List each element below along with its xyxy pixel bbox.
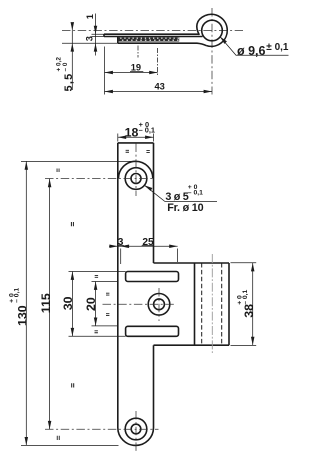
lower slot	[126, 326, 179, 336]
leader 3 ø5 / Fr. ø10	[144, 184, 217, 214]
bottom hole ø5	[131, 424, 141, 434]
dimension 115	[39, 179, 53, 429]
eye ring outer arc	[205, 14, 227, 46]
bottom hole centerlines	[45, 411, 159, 453]
top hole centerlines	[45, 144, 152, 197]
svg-text:– 0,1: – 0,1	[242, 289, 249, 304]
svg-text:43: 43	[155, 82, 165, 92]
plate outline (plan view)	[118, 143, 154, 446]
svg-text:– 0: – 0	[62, 62, 69, 71]
svg-text:– 0,1: – 0,1	[139, 125, 155, 134]
equality marks top	[126, 150, 150, 153]
extension line left end	[104, 47, 106, 95]
label ø 9,6 ±0,1 with leader	[220, 37, 289, 59]
serration band speckles	[120, 38, 179, 40]
svg-text:– 0,1: – 0,1	[188, 190, 203, 197]
top hole ø5	[131, 174, 141, 184]
dimension 5,5 +0,2/-0	[55, 22, 74, 91]
middle hole countersink	[148, 294, 170, 316]
dimension 130 +0/-0,1	[9, 161, 132, 445]
dimension 3 / 25	[109, 237, 178, 264]
svg-text:25: 25	[142, 237, 154, 248]
bottom hole countersink	[125, 418, 147, 440]
top dome arc	[118, 161, 152, 178]
svg-text:3: 3	[85, 36, 95, 41]
svg-text:3: 3	[118, 237, 124, 248]
dimension 30	[61, 272, 125, 337]
svg-text:18: 18	[125, 125, 139, 139]
dimension 3	[85, 36, 98, 52]
svg-text:ø 9,6: ø 9,6	[237, 44, 266, 58]
eye vertical centerline (side view)	[211, 8, 213, 95]
extension line at 19	[157, 48, 159, 76]
svg-text:5,5: 5,5	[63, 73, 75, 92]
leaf interface line	[104, 36, 203, 38]
middle hole centerlines	[103, 288, 175, 321]
top hole countersink	[125, 168, 147, 190]
hole centerline tick (side view)	[137, 46, 139, 58]
equality marks left column	[57, 169, 110, 441]
top leaf curl arc	[197, 16, 205, 35]
block hidden hole lines	[201, 263, 203, 345]
dimension 1	[85, 14, 97, 56]
dimension 19	[105, 62, 158, 74]
svg-text:± 0,1: ± 0,1	[266, 42, 289, 53]
block outline (eye section)	[154, 263, 230, 345]
serration band fill	[118, 37, 179, 41]
svg-text:38: 38	[242, 304, 256, 318]
dimension 18 +0/-0,1	[118, 120, 155, 142]
eye ring inner circle (hole ø9,6)	[202, 20, 223, 41]
svg-text:20: 20	[84, 297, 98, 311]
svg-text:30: 30	[61, 296, 75, 310]
block inner solid line	[194, 263, 196, 345]
svg-text:19: 19	[131, 62, 141, 72]
middle hole ø5	[154, 299, 165, 310]
side view horizontal centerline	[62, 30, 243, 32]
dimension 43	[105, 82, 213, 94]
svg-text:115: 115	[39, 293, 53, 313]
thin top leaf outline	[104, 34, 199, 36]
svg-text:Fr. ø 10: Fr. ø 10	[167, 202, 203, 214]
upper slot	[126, 272, 179, 282]
svg-text:– 0,1: – 0,1	[14, 288, 21, 303]
thick leaf outline	[118, 37, 207, 46]
dimension 38 +0/-0,1	[231, 263, 257, 346]
dimension 20	[84, 282, 118, 326]
extension lines left of side view	[62, 34, 118, 43]
svg-text:130: 130	[16, 305, 30, 326]
eye axis centerline (plan view)	[211, 254, 213, 353]
svg-text:1: 1	[85, 14, 95, 19]
